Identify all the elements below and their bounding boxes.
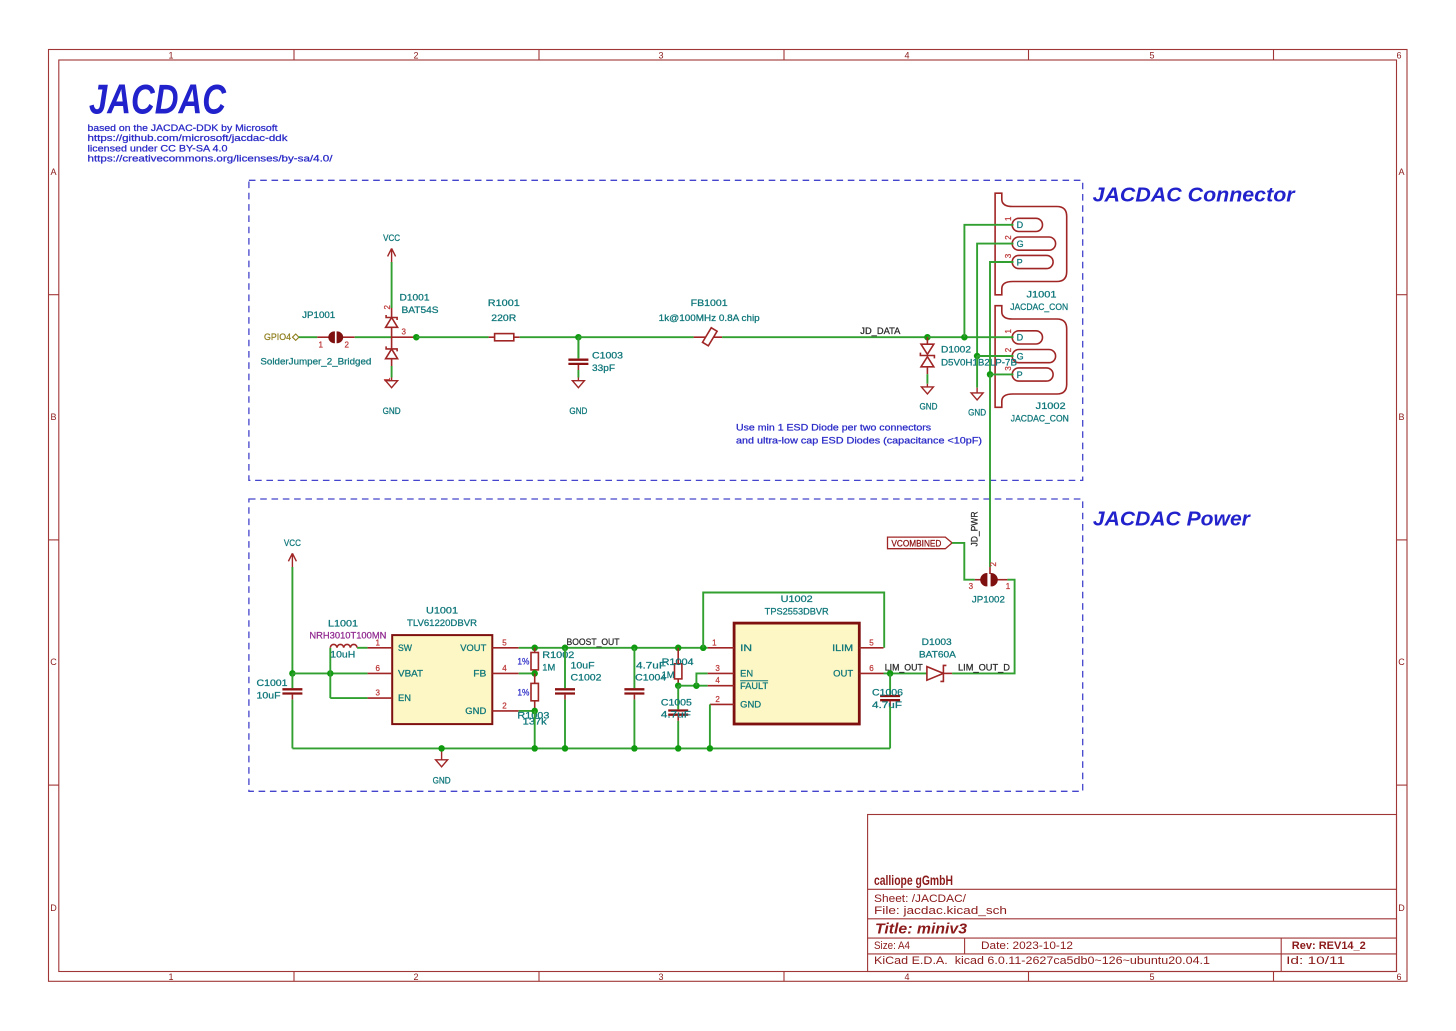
svg-text:2: 2 [383,305,392,310]
junction at C1003 [575,334,582,341]
wire EN branch [330,697,367,699]
svg-text:10uF: 10uF [571,660,596,670]
svg-text:JACDAC Power: JACDAC Power [1093,509,1251,531]
svg-text:and ultra-low cap ESD Diodes (: and ultra-low cap ESD Diodes (capacitanc… [736,436,982,446]
wire D1001 to R1001 [416,336,488,338]
capacitor C1002 [555,648,575,700]
svg-text:D1001: D1001 [400,293,430,303]
resistor R1003 [531,673,538,711]
junction GND rail at C1004 [631,745,638,752]
svg-text:10uH: 10uH [330,650,355,660]
wire VOUT to IN (net BOOST_OUT) [519,647,708,649]
svg-text:C: C [1398,657,1405,667]
svg-text:Date: 2023-10-12: Date: 2023-10-12 [981,940,1073,952]
schottky diode D1003 BAT60A [927,665,952,681]
svg-text:10uF: 10uF [257,690,282,700]
wire C1003 to GND [577,370,579,378]
wire GND2 to R1003 bottom [519,710,535,712]
ground symbol below D1001 [383,378,401,417]
junction GND rail at C1005 [675,745,682,752]
svg-text:2: 2 [413,972,418,982]
connector J1002 JACDAC_CON [995,306,1067,408]
svg-text:P: P [1017,257,1023,267]
svg-text:KiCad E.D.A. kicad 6.0.11-262: KiCad E.D.A. kicad 6.0.11-2627ca5db0~126… [874,955,1210,967]
junction R1003 bottom [531,708,538,715]
wire GPIO4 to JP1001 [299,336,317,338]
svg-text:GND: GND [968,408,986,418]
svg-text:JD_PWR: JD_PWR [970,511,980,546]
svg-text:LIM_OUT_D: LIM_OUT_D [958,663,1011,673]
svg-text:B: B [50,412,56,422]
junction GND rail at R1003 [531,745,538,752]
power symbol VCC (connector) [383,233,400,262]
junction JD_DATA at D1001 [413,334,420,341]
svg-text:BAT54S: BAT54S [402,305,439,315]
wire R1003 bottom to GND rail [534,711,536,749]
svg-text:EN: EN [740,669,753,679]
svg-text:3: 3 [969,582,974,591]
title block [868,815,1397,972]
svg-text:4: 4 [715,676,720,685]
wire C1002 to GND rail [564,700,566,749]
svg-text:JD_DATA: JD_DATA [860,326,900,336]
IC U1001 TLV61220DBVR [368,635,519,724]
svg-text:EN: EN [398,693,411,703]
svg-text:D1003: D1003 [922,637,952,647]
wire EN drop [696,673,707,685]
svg-text:U1002: U1002 [781,594,813,604]
svg-text:GND: GND [569,406,587,416]
svg-text:G: G [1017,352,1024,362]
svg-text:A: A [50,167,56,177]
svg-text:ILIM: ILIM [832,643,853,653]
svg-text:C1005: C1005 [661,698,692,708]
solder jumper JP1001 [317,332,354,343]
svg-text:3: 3 [402,328,407,337]
svg-text:1: 1 [376,638,381,647]
wire C1004 to GND rail [633,700,635,749]
svg-text:R1004: R1004 [662,657,694,667]
junction GND rail at C1002 [562,745,569,752]
svg-text:4: 4 [904,972,909,982]
capacitor C1004 [624,648,644,700]
svg-text:GND: GND [383,406,401,416]
svg-text:C1003: C1003 [592,351,623,361]
svg-text:U1001: U1001 [426,605,458,615]
capacitor C1005 [668,686,688,721]
wire D1003 to JP1002 riser (net LIM_OUT_D) [952,580,1015,674]
solder jumper JP1002 [975,567,1008,586]
JACDAC Connector section box [249,180,1083,480]
ground symbol below C1003 [569,378,587,417]
svg-text:based on the JACDAC-DDK by Mic: based on the JACDAC-DDK by Microsoft [88,123,279,133]
svg-text:2: 2 [413,51,418,61]
svg-text:Sheet: /JACDAC/: Sheet: /JACDAC/ [874,893,967,905]
svg-text:D: D [50,903,57,913]
wire GND rail [292,747,890,749]
svg-text:https://creativecommons.org/li: https://creativecommons.org/licenses/by-… [88,153,334,163]
svg-text:SW: SW [398,643,412,653]
wire J1001 pin D feeder [964,225,1013,337]
svg-text:calliope gGmbH: calliope gGmbH [874,872,953,888]
svg-text:1M: 1M [662,670,675,680]
wire C1003 to FB1001 [578,336,693,338]
svg-text:D: D [1017,220,1024,230]
svg-text:6: 6 [1396,972,1401,982]
svg-text:5: 5 [502,638,507,647]
wire FB to R1002/R1003 [519,672,535,674]
resistor R1002 [531,648,538,674]
svg-text:JP1001: JP1001 [302,310,335,320]
svg-text:1: 1 [712,638,717,647]
svg-text:4: 4 [904,51,909,61]
svg-text:3: 3 [715,664,720,673]
wire L1001 to SW [357,647,368,649]
svg-text:2: 2 [502,701,507,710]
svg-text:2: 2 [715,695,720,704]
svg-text:Use min 1 ESD Diode per two co: Use min 1 ESD Diode per two connectors [736,423,932,433]
junction at D1002 [924,334,931,341]
svg-text:GPIO4: GPIO4 [264,332,291,342]
wire FB1001 to D1002 (net JD_DATA) [722,336,927,338]
svg-text:C1001: C1001 [257,678,288,688]
junction GND rail at U1002 GND [707,745,714,752]
svg-text:C: C [50,657,57,667]
svg-text:220R: 220R [491,313,517,323]
svg-text:5: 5 [1149,51,1154,61]
dual schottky diode D1001 BAT54S [386,308,417,366]
junction BOOST_OUT at C1002 [562,645,569,652]
svg-text:VBAT: VBAT [398,668,424,678]
wire D1001 to GND [391,366,393,378]
svg-text:P: P [1017,370,1023,380]
wire junction to J1002 pin P [990,373,1014,375]
svg-text:33pF: 33pF [592,363,616,373]
global label VCOMBINED [888,537,953,549]
svg-text:VOUT: VOUT [460,643,487,653]
wire C1006 to GND rail corner [889,706,891,748]
wire net JD_PWR down to power section [989,374,991,567]
ground symbol below connector G [968,388,986,418]
svg-text:3: 3 [1004,366,1013,371]
svg-text:2: 2 [989,562,998,567]
resistor R1001 [489,334,520,341]
junction L1001/VBAT [327,670,334,677]
svg-text:4.7uF: 4.7uF [872,700,903,710]
wire JP1001 to D1001 [355,336,392,338]
wire J1001 pin G feeder [977,244,1013,356]
svg-text:JACDAC_CON: JACDAC_CON [1010,302,1068,312]
wire U1002 GND to rail [709,704,711,748]
svg-text:6: 6 [376,664,381,673]
svg-text:2: 2 [345,341,350,350]
svg-text:D: D [1017,333,1024,343]
svg-text:IN: IN [740,643,752,653]
svg-text:G: G [1017,239,1024,249]
wire D1002 to GND [926,374,928,384]
svg-text:File: jacdac.kicad_sch: File: jacdac.kicad_sch [874,905,1007,917]
resistor R1004 [675,648,682,686]
svg-text:VCC: VCC [383,233,400,243]
svg-text:5: 5 [1149,972,1154,982]
svg-text:GND: GND [465,706,487,716]
hierarchical label GPIO4 [264,332,299,342]
svg-text:3: 3 [376,689,381,698]
capacitor C1003 [568,337,588,370]
svg-text:TLV61220DBVR: TLV61220DBVR [407,618,478,628]
svg-text:3: 3 [658,51,663,61]
svg-text:FAULT: FAULT [740,681,769,691]
svg-text:D5V0H1B2LP-7B: D5V0H1B2LP-7B [941,357,1017,367]
junction at J1002 pin P [987,371,994,378]
svg-text:BOOST_OUT: BOOST_OUT [567,637,620,647]
svg-text:6: 6 [1396,51,1401,61]
junction EN drop [693,682,700,689]
junction BOOST_OUT at R1004 [675,645,682,652]
svg-text:VCOMBINED: VCOMBINED [891,538,941,548]
junction GND rail at GND symbol [438,745,445,752]
svg-text:1: 1 [1004,216,1013,221]
svg-text:R1002: R1002 [542,650,574,660]
svg-text:4: 4 [502,664,507,673]
wire C1005 to GND rail [677,721,679,749]
svg-text:2: 2 [1004,347,1013,352]
wire VCC to D1001 pin2 [391,262,393,308]
wire junction to J1002 pin G [977,355,1013,357]
junction VCC/C1001 [289,670,296,677]
svg-text:1: 1 [1006,582,1011,591]
wire G feeder down to GND [976,356,978,388]
svg-text:FB: FB [473,668,486,678]
svg-text:1M: 1M [542,662,555,672]
connector J1001 JACDAC_CON [995,193,1067,295]
IC U1002 TPS2553DBVR [708,623,884,724]
svg-text:C1006: C1006 [872,688,903,698]
svg-text:GND: GND [740,700,762,710]
svg-text:D: D [1398,903,1405,913]
svg-text:JACDAC: JACDAC [89,76,227,123]
svg-text:1: 1 [1004,329,1013,334]
svg-text:D1002: D1002 [941,344,971,354]
svg-text:L1001: L1001 [328,618,358,628]
svg-text:Title: miniv3: Title: miniv3 [875,921,968,938]
svg-text:1k@100MHz 0.8A chip: 1k@100MHz 0.8A chip [659,313,760,323]
wire VCOMBINED to JP1002 pin3 [952,543,975,580]
svg-text:J1001: J1001 [1027,290,1057,300]
svg-text:VCC: VCC [284,538,301,548]
wire D1002 junction to J1002 pin D [927,336,1013,338]
wire C1001 to GND rail [291,700,293,749]
junction BOOST_OUT at R1002 [531,645,538,652]
wire R1001 to C1003 node [520,336,579,338]
junction FB node [531,670,538,677]
wire junction to C1003 [577,337,579,358]
svg-text:J1002: J1002 [1036,401,1066,411]
svg-text:BAT60A: BAT60A [919,649,956,659]
svg-text:C1002: C1002 [571,673,602,683]
svg-text:GND: GND [433,776,451,786]
svg-text:3: 3 [1004,253,1013,258]
svg-text:FB1001: FB1001 [691,298,728,308]
svg-text:licensed under CC BY-SA 4.0: licensed under CC BY-SA 4.0 [88,143,228,153]
svg-text:TPS2553DBVR: TPS2553DBVR [765,607,830,617]
junction at J1002 pin G [974,353,981,360]
svg-text:A: A [1398,167,1404,177]
svg-text:JACDAC_CON: JACDAC_CON [1011,414,1069,424]
svg-text:1%: 1% [517,657,529,667]
svg-text:Size: A4: Size: A4 [874,940,910,952]
capacitor C1006 [880,673,900,706]
svg-text:SolderJumper_2_Bridged: SolderJumper_2_Bridged [260,356,371,366]
wire VCC down to VBAT node [291,567,293,673]
svg-text:OUT: OUT [833,669,854,679]
svg-text:1%: 1% [517,688,529,698]
junction BOOST_OUT at C1004 [631,645,638,652]
svg-text:2: 2 [1004,235,1013,240]
wire VCC node to L1001 node [292,672,367,674]
junction BOOST_OUT at ILIM riser [700,645,707,652]
svg-text:Id: 10/11: Id: 10/11 [1286,955,1345,967]
JACDAC Power section box [249,499,1083,791]
svg-text:4.7uF: 4.7uF [661,710,692,720]
svg-text:1: 1 [168,972,173,982]
svg-text:1: 1 [168,51,173,61]
svg-text:5: 5 [869,638,874,647]
wire ILIM loop [703,593,884,648]
svg-text:GND: GND [920,402,938,412]
junction LIM_OUT at C1006 [887,670,894,677]
svg-text:3: 3 [658,972,663,982]
svg-text:JP1002: JP1002 [972,594,1005,604]
capacitor C1001 [282,673,302,699]
svg-text:JACDAC Connector: JACDAC Connector [1093,185,1296,207]
ESD diode D1002 D5V0H1B2LP-7B [920,337,934,374]
wire J1001 pin P feeder [990,262,1014,374]
ferrite bead FB1001 [694,328,723,346]
junction at J1001 feeder [961,334,968,341]
junction R1004 bottom / FAULT tie [675,682,682,689]
wire FAULT tie [678,685,708,687]
svg-text:B: B [1398,412,1404,422]
wire OUT to D1003 (net LIM_OUT) [884,672,927,674]
wire L1001 branch vertical [329,648,331,698]
svg-text:https://github.com/microsoft/j: https://github.com/microsoft/jacdac-ddk [88,133,289,143]
svg-text:R1001: R1001 [488,298,520,308]
power symbol VCC (power section) [284,538,301,567]
svg-text:1: 1 [319,341,324,350]
inductor L1001 [330,644,357,647]
ground symbol power rail [433,748,451,785]
svg-text:Rev: REV14_2: Rev: REV14_2 [1292,940,1366,952]
svg-text:6: 6 [869,664,874,673]
ground symbol below D1002 [920,384,938,412]
